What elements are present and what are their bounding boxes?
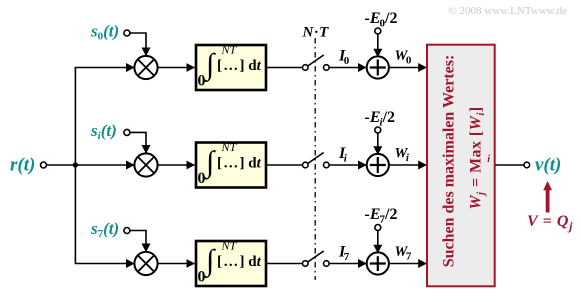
svg-text:Ii: Ii xyxy=(338,145,348,165)
input terminal r(t) xyxy=(41,162,47,168)
wire M1 to integrator 1 xyxy=(157,67,194,69)
wire bus to multiplier M1 xyxy=(75,67,135,69)
arrow V implies output xyxy=(543,181,552,213)
svg-text:∫: ∫ xyxy=(204,48,216,83)
svg-text:-E7/2: -E7/2 xyxy=(365,206,398,226)
multiplier M1 xyxy=(134,56,157,79)
svg-text:I7: I7 xyxy=(338,244,350,264)
wire M3 to integrator 3 xyxy=(157,263,194,265)
svg-text:r(t): r(t) xyxy=(10,155,35,176)
svg-text:NT: NT xyxy=(221,239,238,253)
multiplier M3 xyxy=(134,252,157,275)
svg-text:[ … ] dt: [ … ] dt xyxy=(217,58,262,74)
svg-text:si(t): si(t) xyxy=(90,121,117,142)
wire input to multiplier M2 xyxy=(47,164,135,166)
adder A1 xyxy=(367,56,389,78)
wire s0 to multiplier M1 xyxy=(130,33,146,56)
maximum decision box xyxy=(427,45,495,287)
svg-text:∫: ∫ xyxy=(204,244,216,279)
wire bus to multiplier M3 xyxy=(75,263,135,265)
wire S1 to adder A1 xyxy=(329,67,366,69)
junction node xyxy=(73,162,78,167)
svg-text:-E0/2: -E0/2 xyxy=(365,10,398,30)
svg-text:Wi: Wi xyxy=(395,146,410,165)
wire Ei to adder A2 xyxy=(377,133,379,154)
terminal Ei xyxy=(375,127,381,133)
svg-text:s0(t): s0(t) xyxy=(90,22,119,43)
wire A3 to decision box xyxy=(389,263,427,265)
output terminal v(t) xyxy=(524,162,530,168)
svg-text:N·T: N·T xyxy=(302,24,330,40)
terminal s7 xyxy=(124,228,130,234)
terminal E0 xyxy=(375,28,381,34)
terminal s0 xyxy=(124,30,130,36)
svg-text:I0: I0 xyxy=(338,48,350,68)
wire A2 to decision box xyxy=(389,164,427,166)
integrator block 3 xyxy=(196,239,266,287)
svg-text:[ … ] dt: [ … ] dt xyxy=(217,254,262,270)
wire si to multiplier M2 xyxy=(130,132,146,153)
svg-text:W7: W7 xyxy=(395,244,412,263)
wire M2 to integrator 2 xyxy=(157,164,194,166)
svg-text:© 2008 www.LNTwww.de: © 2008 www.LNTwww.de xyxy=(448,5,567,17)
wire integrator 1 to switch S1 xyxy=(266,67,303,69)
svg-text:W0: W0 xyxy=(395,48,412,67)
wire A1 to decision box xyxy=(389,67,427,69)
svg-text:Suchen des maximalen Wertes:: Suchen des maximalen Wertes: xyxy=(441,55,458,268)
multiplier M2 xyxy=(134,153,157,176)
adder A3 xyxy=(367,252,389,274)
integrator block 1 xyxy=(196,43,266,91)
wire s7 to multiplier M3 xyxy=(130,231,146,252)
svg-text:0: 0 xyxy=(198,269,206,286)
svg-text:NT: NT xyxy=(221,140,238,154)
svg-text:-Ei/2: -Ei/2 xyxy=(365,109,396,129)
svg-text:V = Qj: V = Qj xyxy=(527,213,573,233)
svg-text:NT: NT xyxy=(221,43,238,57)
wire decision box to output v(t) xyxy=(496,164,525,166)
svg-text:v(t): v(t) xyxy=(535,155,561,176)
switch S2 xyxy=(303,153,330,168)
svg-text:[ … ] dt: [ … ] dt xyxy=(217,156,262,172)
svg-text:∫: ∫ xyxy=(204,146,216,181)
wire E7 to adder A3 xyxy=(377,231,379,253)
svg-text:0: 0 xyxy=(198,170,206,187)
wire S2 to adder A2 xyxy=(329,164,366,166)
integrator block 2 xyxy=(196,140,266,188)
switch S3 xyxy=(303,251,330,266)
switch S1 xyxy=(303,55,330,70)
wire E0 to adder A1 xyxy=(377,34,379,57)
wire integrator 2 to switch S2 xyxy=(266,164,303,166)
terminal si xyxy=(124,129,130,135)
wire S3 to adder A3 xyxy=(329,263,366,265)
svg-text:i: i xyxy=(487,154,490,165)
svg-text:0: 0 xyxy=(198,73,206,90)
wire vertical bus xyxy=(74,68,76,264)
terminal E7 xyxy=(375,225,381,231)
wire integrator 3 to switch S3 xyxy=(266,263,303,265)
svg-text:s7(t): s7(t) xyxy=(90,219,119,240)
sampling time line N.T xyxy=(314,38,316,280)
adder A2 xyxy=(367,154,389,176)
